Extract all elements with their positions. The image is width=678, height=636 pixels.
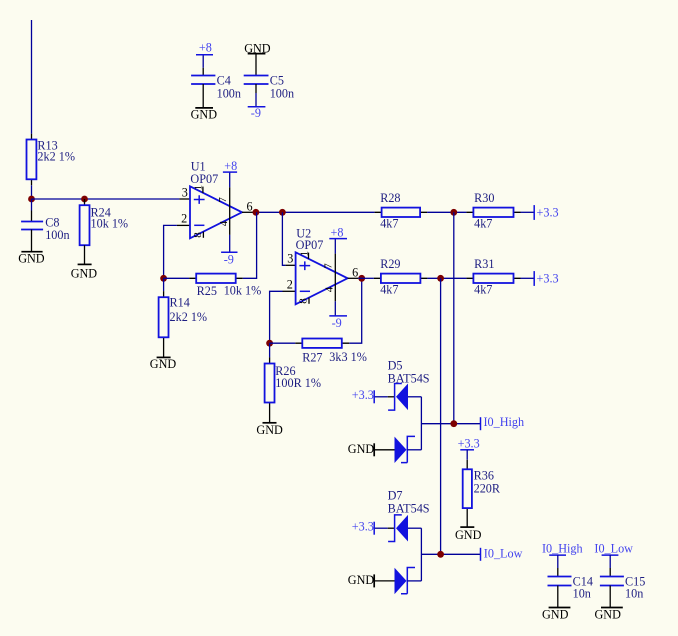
wire I0_High node row	[421, 423, 480, 425]
svg-text:D7: D7	[388, 488, 403, 502]
resistor R24	[80, 199, 128, 264]
ground flag for D7 lower	[348, 573, 375, 587]
diode D5 BAT54S upper	[374, 358, 430, 410]
wire D7 common vertical	[420, 528, 422, 581]
wire vertical R28 node to I0_High node	[453, 212, 455, 423]
svg-text:2: 2	[181, 212, 187, 226]
resistor R28	[375, 191, 428, 230]
wire D5 common vertical	[420, 397, 422, 450]
svg-text:R27: R27	[302, 350, 322, 364]
wire R31 to +3.3 flag	[521, 277, 535, 279]
power +3.3 flag for R36	[458, 437, 480, 451]
svg-text:+3.3: +3.3	[352, 520, 374, 534]
power +3.3 flag for D7 upper	[352, 520, 374, 535]
svg-text:GND: GND	[71, 266, 98, 280]
wire vertical R29 node to I0_Low node	[440, 278, 442, 554]
svg-text:100n: 100n	[217, 87, 241, 101]
svg-text:10n: 10n	[625, 587, 643, 601]
wire node to R25 left	[164, 277, 190, 279]
wire U1 output row	[253, 211, 374, 213]
svg-text:10k 1%: 10k 1%	[91, 216, 129, 230]
ground for C14	[542, 607, 570, 621]
wire R27 right up to U2 output	[349, 278, 361, 343]
resistor R13	[27, 134, 75, 186]
svg-text:3: 3	[182, 185, 188, 199]
svg-text:4: 4	[324, 286, 336, 292]
ground for R36	[455, 527, 482, 542]
ground flag above C5	[244, 41, 271, 55]
svg-text:8: 8	[297, 298, 309, 304]
svg-text:GND: GND	[348, 442, 375, 456]
svg-text:GND: GND	[455, 528, 482, 542]
ground flag for D5 lower	[348, 442, 375, 456]
net flag I0_High	[481, 415, 525, 430]
junction U1 out	[253, 209, 260, 216]
svg-text:I0_High: I0_High	[542, 542, 583, 556]
svg-text:6: 6	[247, 199, 253, 213]
svg-text:4: 4	[218, 220, 230, 226]
svg-text:1: 1	[193, 185, 205, 191]
ground for C8	[18, 251, 45, 265]
power +8 flag for C4	[196, 41, 213, 55]
svg-text:R30: R30	[474, 191, 494, 205]
power -9 flag for U2	[329, 301, 347, 330]
svg-text:GND: GND	[18, 251, 45, 265]
wire drop to U2 pin3	[282, 212, 285, 265]
resistor R26	[265, 343, 321, 423]
svg-text:+3.3: +3.3	[352, 388, 374, 402]
junction R27/R26 node	[266, 340, 273, 347]
wire U2 pin2 loop	[270, 291, 283, 343]
svg-text:+8: +8	[199, 41, 212, 55]
resistor R31	[466, 257, 520, 296]
wire input net vertical to R13	[31, 20, 33, 134]
junction R28/R30 node	[450, 209, 457, 216]
svg-text:GND: GND	[150, 357, 177, 371]
wire U1 pin2 loop	[164, 225, 177, 278]
capacitor C4	[191, 55, 241, 108]
svg-text:C5: C5	[270, 74, 284, 88]
svg-text:OP07: OP07	[190, 172, 218, 186]
svg-text:R31: R31	[474, 257, 494, 271]
svg-text:+8: +8	[331, 225, 344, 239]
junction I0_Low node	[437, 551, 444, 558]
svg-text:3k3 1%: 3k3 1%	[329, 350, 367, 364]
capacitor C8	[21, 199, 69, 252]
svg-text:R25: R25	[197, 284, 217, 298]
wire feedback drop to R25	[243, 212, 257, 278]
power +3.3 flag for D5 upper	[352, 388, 374, 403]
svg-text:I0_Low: I0_Low	[484, 546, 523, 560]
svg-text:4k7: 4k7	[474, 283, 492, 297]
power -9 flag for U1	[221, 235, 237, 267]
svg-text:GND: GND	[595, 607, 622, 621]
svg-text:R36: R36	[474, 468, 494, 482]
svg-text:-9: -9	[332, 316, 342, 330]
svg-text:10k 1%: 10k 1%	[224, 284, 262, 298]
svg-text:6: 6	[352, 265, 358, 279]
svg-text:GND: GND	[244, 41, 271, 55]
junction R29 node	[437, 275, 444, 282]
wire R13 to node A	[31, 185, 33, 199]
wire node to R27 left	[270, 342, 296, 344]
svg-text:4k7: 4k7	[380, 283, 398, 297]
wire R28 to R30	[427, 211, 466, 213]
svg-text:100n: 100n	[45, 228, 69, 242]
node A junction	[28, 196, 35, 203]
svg-text:2k2 1%: 2k2 1%	[37, 150, 75, 164]
svg-text:4k7: 4k7	[474, 216, 492, 230]
node B junction	[81, 196, 88, 203]
power -9 flag for C5	[248, 106, 266, 120]
svg-text:OP07: OP07	[296, 238, 324, 252]
net flag I0_Low	[481, 546, 523, 561]
svg-text:R29: R29	[380, 257, 400, 271]
resistor R25	[189, 274, 261, 298]
junction U2 out	[358, 275, 365, 282]
svg-text:1: 1	[298, 251, 310, 257]
ground for R24	[71, 264, 98, 280]
wire R30 to +3.3 flag	[521, 211, 535, 213]
wire node A to node B to U1 pin3	[32, 198, 180, 200]
capacitor C15	[600, 555, 645, 607]
svg-text:8: 8	[192, 232, 204, 238]
svg-text:+3.3: +3.3	[537, 272, 559, 286]
svg-text:+3.3: +3.3	[537, 206, 559, 220]
net label I0_High above C14	[542, 542, 583, 556]
svg-text:GND: GND	[191, 108, 218, 122]
svg-text:2k2 1%: 2k2 1%	[170, 310, 208, 324]
svg-text:7: 7	[323, 263, 335, 269]
op-amp U2 OP07	[283, 227, 359, 305]
wire R29 to R31	[427, 277, 466, 279]
diode D7 BAT54S upper	[374, 488, 430, 541]
junction feedback node U1	[160, 275, 167, 282]
op-amp U1 OP07	[177, 160, 253, 239]
svg-text:GND: GND	[256, 423, 283, 437]
ground for R14	[150, 357, 177, 371]
ground for R26	[256, 423, 283, 437]
svg-text:100n: 100n	[270, 87, 294, 101]
svg-text:R14: R14	[170, 296, 190, 310]
resistor R29	[374, 257, 428, 296]
svg-text:220R: 220R	[474, 482, 501, 496]
svg-text:-9: -9	[224, 253, 234, 267]
svg-text:I0_Low: I0_Low	[594, 542, 633, 556]
svg-text:7: 7	[217, 197, 229, 203]
junction to U2 pin3	[279, 209, 286, 216]
svg-text:100R 1%: 100R 1%	[275, 376, 321, 390]
svg-text:+3.3: +3.3	[458, 437, 480, 451]
svg-text:10n: 10n	[573, 587, 591, 601]
power +8 flag for U1	[223, 159, 237, 187]
svg-text:-9: -9	[251, 106, 261, 120]
wire U2 out to R29	[358, 277, 374, 279]
svg-text:4k7: 4k7	[380, 216, 398, 230]
junction I0_High node	[450, 420, 457, 427]
svg-text:GND: GND	[542, 607, 569, 621]
resistor R27	[295, 339, 367, 365]
net label I0_Low above C15	[594, 542, 633, 556]
capacitor C5	[244, 54, 294, 107]
svg-text:BAT54S: BAT54S	[388, 501, 430, 515]
resistor R14	[159, 278, 207, 357]
diode D7 BAT54S lower	[374, 568, 421, 595]
svg-text:GND: GND	[348, 573, 375, 587]
svg-text:D5: D5	[388, 358, 403, 372]
ground for C15	[595, 607, 623, 621]
ground for C4	[191, 108, 218, 122]
svg-text:I0_High: I0_High	[484, 415, 525, 429]
power +8 flag for U2	[329, 225, 347, 253]
svg-text:3: 3	[287, 252, 293, 266]
capacitor C14	[548, 555, 593, 607]
resistor R30	[466, 191, 520, 230]
svg-text:2: 2	[287, 278, 293, 292]
svg-text:C4: C4	[217, 74, 231, 88]
resistor R36	[463, 450, 501, 527]
svg-text:+8: +8	[224, 159, 237, 173]
diode D5 BAT54S lower	[374, 436, 421, 463]
power +3.3 flag row2	[534, 271, 558, 286]
svg-text:R28: R28	[380, 191, 400, 205]
power +3.3 flag row1	[534, 205, 558, 220]
wire I0_Low node row	[421, 553, 480, 555]
